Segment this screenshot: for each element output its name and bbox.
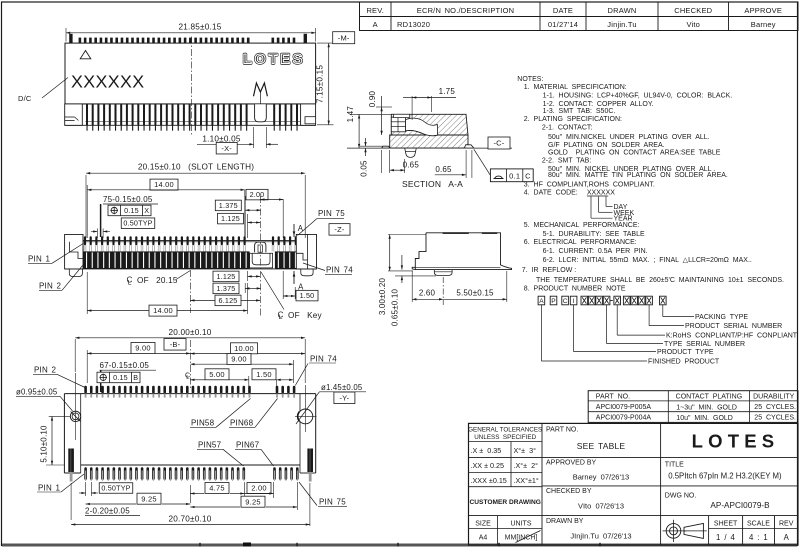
boxed dimension 5.00 xyxy=(190,369,249,390)
svg-text:FINISHED PRODUCT: FINISHED PRODUCT xyxy=(648,358,720,365)
date code DAY WEEK YEAR leaders xyxy=(591,197,634,223)
svg-text:0.50TYP: 0.50TYP xyxy=(123,219,152,228)
top view left end bracket xyxy=(65,104,83,125)
middle view band bottom edge xyxy=(65,268,317,270)
svg-text:LOTES: LOTES xyxy=(692,431,780,452)
diameter label ø0.95±0.05 xyxy=(16,387,73,411)
customer drawing label xyxy=(470,499,541,506)
date code XXXXXX underlined xyxy=(587,189,615,196)
svg-text:6-2. LLCR: INITIAL 55mΩ MA: 6-2. LLCR: INITIAL 55mΩ MAX. ; FINAL △LL… xyxy=(543,257,752,264)
top view SMT pad row xyxy=(69,34,307,43)
svg-text:6-1. CURRENT: 0.5A PER PIN: 6-1. CURRENT: 0.5A PER PIN. xyxy=(543,248,648,255)
svg-text:PIN 1: PIN 1 xyxy=(38,483,61,492)
svg-text:.X ± 0.35: .X ± 0.35 xyxy=(471,446,502,455)
dimension 0.65±0.10 (side view) xyxy=(390,255,436,326)
svg-text:A: A xyxy=(539,298,544,305)
svg-text:1-3. SMT TAB: S50C.: 1-3. SMT TAB: S50C. xyxy=(543,108,616,115)
title block grid xyxy=(469,423,799,545)
checked by cell xyxy=(546,488,624,510)
datum -X- xyxy=(216,142,237,154)
PIN58 label xyxy=(190,399,251,428)
dimension 1.75 (section) xyxy=(403,87,456,120)
svg-text:.XX°±1°: .XX°±1° xyxy=(514,476,539,485)
svg-text:ECR/N NO./DESCRIPTION: ECR/N NO./DESCRIPTION xyxy=(417,6,515,15)
svg-text:0.5PItch 67pIn M.2 H3.2(KEY M): 0.5PItch 67pIn M.2 H3.2(KEY M) xyxy=(668,472,782,481)
revision table row A xyxy=(373,20,776,29)
svg-text:5-1. DURABILITY: SEE TABLE: 5-1. DURABILITY: SEE TABLE xyxy=(543,231,645,238)
part table text xyxy=(596,394,796,422)
boxed dimension 1.375 bottom xyxy=(213,283,261,294)
embossed LOTES logo xyxy=(243,51,305,67)
svg-text:C: C xyxy=(525,171,531,180)
datum -C- xyxy=(488,137,510,149)
svg-text:2-2. SMT TAB:: 2-2. SMT TAB: xyxy=(542,158,591,165)
PIN57 label xyxy=(197,441,244,466)
LOTES logo title block xyxy=(692,431,780,452)
svg-text:APPROVED BY: APPROVED BY xyxy=(546,460,597,467)
svg-text:0.05: 0.05 xyxy=(359,160,368,177)
product number leader labels xyxy=(541,305,797,366)
svg-text:APPROVE: APPROVE xyxy=(744,6,782,15)
PIN 75 label (bottom view) xyxy=(299,482,347,507)
svg-text:0.15: 0.15 xyxy=(124,206,139,215)
PIN 1 label (bottom view) xyxy=(37,474,84,492)
svg-text:0.1: 0.1 xyxy=(509,171,520,180)
svg-text:PIN 2: PIN 2 xyxy=(39,282,62,291)
top view right end bracket xyxy=(301,104,316,125)
middle view key tab xyxy=(255,242,266,252)
projection symbol xyxy=(663,520,707,542)
svg-text:14.00: 14.00 xyxy=(153,306,173,315)
svg-text:25 CYCLES.: 25 CYCLES. xyxy=(754,415,796,422)
boxed dimension 9.00 right xyxy=(190,354,293,384)
D/C label xyxy=(18,78,68,104)
svg-text:PIN 74: PIN 74 xyxy=(310,354,337,363)
dimension 0.90 (section) xyxy=(368,90,392,135)
position tolerance bottom xyxy=(97,372,140,383)
boxed dimension 9.00 left xyxy=(87,340,190,390)
svg-text:CONTACT PLATING: CONTACT PLATING xyxy=(676,394,743,401)
svg-text:1. MATERIAL SPECIFICATION:: 1. MATERIAL SPECIFICATION: xyxy=(524,84,627,91)
svg-text:PIN 2: PIN 2 xyxy=(34,366,57,375)
svg-text:9.00: 9.00 xyxy=(135,344,150,353)
middle view contact tips row xyxy=(84,236,297,251)
svg-text:0.50TYP: 0.50TYP xyxy=(101,483,130,492)
dimension 7.15±0.15 xyxy=(316,43,334,125)
position tolerance top xyxy=(108,205,151,216)
svg-text:Barney 07/26'13: Barney 07/26'13 xyxy=(573,473,629,482)
dimension 20.00±0.10 xyxy=(75,328,305,383)
svg-text:9.00: 9.00 xyxy=(231,355,246,364)
svg-text:1.10±0.05: 1.10±0.05 xyxy=(202,134,240,143)
boxed dimension 1.125 bottom xyxy=(213,271,260,282)
top view band bottom edge xyxy=(65,124,316,126)
datum -M- xyxy=(333,32,355,44)
PIN 74 label (bottom view) xyxy=(295,354,337,385)
svg-text:GOLD PLATING ON CONTACT: GOLD PLATING ON CONTACT AREA:SEE TABLE xyxy=(548,150,721,157)
svg-text:TYPE SERIAL NUMBER: TYPE SERIAL NUMBER xyxy=(664,341,745,348)
svg-text:7. IR REFLOW :: 7. IR REFLOW : xyxy=(522,267,577,274)
dimension 5.10±0.10 xyxy=(40,416,65,465)
dimension 2.60 (side view) xyxy=(412,271,443,305)
datum -B- xyxy=(164,339,186,351)
bottom view lower pin row xyxy=(84,467,298,481)
middle view left end bracket xyxy=(65,234,83,276)
svg-text:PIN 1: PIN 1 xyxy=(28,255,51,264)
svg-text:1-2. CONTACT: COPPER ALLOY.: 1-2. CONTACT: COPPER ALLOY. xyxy=(543,101,654,108)
top view vertical centerline xyxy=(191,37,193,137)
boxed dimension 2.00 top xyxy=(246,189,283,238)
svg-text:K:RoHS CONPLIANT/P:HF CONPLI: K:RoHS CONPLIANT/P:HF CONPLIANT xyxy=(666,333,798,340)
dimension 0.05 (section) xyxy=(359,138,383,177)
datum -Z- xyxy=(329,224,350,236)
sheet scale rev cells xyxy=(714,521,794,542)
dimension 67-0.15±0.05 xyxy=(100,361,157,392)
side view solder tab xyxy=(434,270,452,276)
svg-text:C: C xyxy=(563,298,568,305)
svg-text:A: A xyxy=(784,533,790,542)
general tolerances text xyxy=(468,427,542,485)
revision table header text xyxy=(366,6,782,15)
svg-text:1.75: 1.75 xyxy=(439,87,456,96)
svg-text:20.00±0.10: 20.00±0.10 xyxy=(169,328,212,337)
dimension 20.70±0.10 xyxy=(71,483,310,526)
size units cells xyxy=(475,521,540,543)
boxed dimension 4.75 xyxy=(190,482,244,503)
section A-A hatched body xyxy=(390,114,468,148)
svg-text:OF 20.15: OF 20.15 xyxy=(137,276,178,285)
svg-text:GENERAL TOLERANCES: GENERAL TOLERANCES xyxy=(468,427,542,434)
svg-text:4 : 1: 4 : 1 xyxy=(749,533,768,542)
svg-text:G/F PLATING ON SOLDER AREA: G/F PLATING ON SOLDER AREA. xyxy=(548,142,665,149)
centerline symbol at datum B xyxy=(185,373,190,382)
notes text lines 5-8 xyxy=(522,222,784,292)
polarity triangle mark xyxy=(80,51,91,59)
svg-text:SECTION A-A: SECTION A-A xyxy=(402,179,463,189)
PIN 1 label (middle view) xyxy=(28,243,84,264)
middle view right end bracket xyxy=(296,234,316,275)
svg-text:PIN57: PIN57 xyxy=(198,441,222,450)
section A-A feet xyxy=(382,145,474,148)
svg-text:21.85±0.15: 21.85±0.15 xyxy=(179,22,222,31)
middle view slot centerline xyxy=(189,270,191,313)
section arrow A top xyxy=(293,224,304,237)
svg-text:0.90: 0.90 xyxy=(368,90,377,107)
dwg no cell xyxy=(665,493,770,510)
section A-A PCB baseline xyxy=(347,147,512,149)
svg-text:20.15±0.10 (SLOT LENGTH): 20.15±0.10 (SLOT LENGTH) xyxy=(138,163,254,172)
svg-text:-B-: -B- xyxy=(170,340,181,349)
svg-text:APCI0079-P005A: APCI0079-P005A xyxy=(596,404,652,411)
svg-text:DURABILITY: DURABILITY xyxy=(753,394,795,401)
dimension 20.15 slot length xyxy=(86,163,305,239)
svg-text:JInjIn.Tu 07/26'13: JInjIn.Tu 07/26'13 xyxy=(570,532,631,541)
svg-text:UNITS: UNITS xyxy=(511,521,532,528)
svg-text:REV.: REV. xyxy=(366,6,384,15)
svg-text:20.70±0.10: 20.70±0.10 xyxy=(169,515,212,524)
svg-text:CHECKED: CHECKED xyxy=(674,6,712,15)
svg-text:ø0.95±0.05: ø0.95±0.05 xyxy=(16,387,58,396)
svg-text:DRAWN: DRAWN xyxy=(607,6,636,15)
svg-text:PACKING TYPE: PACKING TYPE xyxy=(695,314,748,321)
svg-text:1.125: 1.125 xyxy=(217,272,236,281)
dimension 75-0.15±0.05 xyxy=(101,195,158,237)
boxed dimension 9.25 left xyxy=(86,493,191,505)
svg-text:B: B xyxy=(133,373,138,382)
svg-text:DRAWN BY: DRAWN BY xyxy=(546,518,584,525)
svg-text:0.65±0.10: 0.65±0.10 xyxy=(390,288,399,326)
svg-text:2.00: 2.00 xyxy=(250,190,265,199)
svg-text:2.60: 2.60 xyxy=(419,289,436,298)
svg-text:XXXXXX: XXXXXX xyxy=(71,71,145,91)
centerline of Key label xyxy=(261,272,323,321)
SECTION A-A label xyxy=(402,179,463,189)
svg-text:1.50: 1.50 xyxy=(256,370,271,379)
dimension 0.65 left (section) xyxy=(382,150,420,173)
svg-text:THE TEMPERATURE SHALL BE 2: THE TEMPERATURE SHALL BE 260±5'C MAINTAI… xyxy=(536,277,784,284)
svg-text:L: L xyxy=(279,314,283,321)
svg-text:2-0.20±0.05: 2-0.20±0.05 xyxy=(85,506,130,515)
svg-text:DWG NO.: DWG NO. xyxy=(665,493,697,500)
svg-text:LOTES: LOTES xyxy=(243,51,305,67)
PIN 2 label (bottom view) xyxy=(33,366,85,388)
svg-text:P: P xyxy=(551,298,556,305)
svg-text:10u" MIN. GOLD: 10u" MIN. GOLD xyxy=(676,415,733,422)
svg-text:CUSTOMER DRAWING: CUSTOMER DRAWING xyxy=(470,499,541,506)
svg-text:1.50: 1.50 xyxy=(300,291,315,300)
side view outline xyxy=(412,232,511,269)
bottom view upper pin row xyxy=(84,386,295,398)
svg-text:-X-: -X- xyxy=(221,144,232,153)
svg-text:PRODUCT TYPE: PRODUCT TYPE xyxy=(657,349,714,356)
svg-text:1.375: 1.375 xyxy=(217,284,236,293)
svg-text:0.15: 0.15 xyxy=(113,373,128,382)
svg-text:AP-APCI0079-B: AP-APCI0079-B xyxy=(710,501,770,510)
svg-text:3.00±0.20: 3.00±0.20 xyxy=(378,277,387,315)
svg-text:1~3u" MIN. GOLD: 1~3u" MIN. GOLD xyxy=(676,405,737,412)
key M marking xyxy=(254,83,268,104)
svg-text:80u" MIN. MATTE TIN PLATIN: 80u" MIN. MATTE TIN PLATING ON SOLDER AR… xyxy=(548,172,728,179)
svg-text:PIN 75: PIN 75 xyxy=(318,209,345,218)
svg-text:MM[INCH]: MM[INCH] xyxy=(505,535,538,542)
left hold-down lead xyxy=(68,449,74,482)
boxed dimension 6.125 xyxy=(190,295,260,306)
PIN67 label xyxy=(235,441,274,466)
PIN68 label xyxy=(229,399,278,428)
boxed dimension 2.00 bottom xyxy=(245,482,274,498)
svg-text:7.15±0.15: 7.15±0.15 xyxy=(316,65,325,103)
section A-A left step detail xyxy=(391,114,409,132)
bottom zone strip xyxy=(2,543,797,547)
part table grid xyxy=(588,391,798,423)
svg-text:-M-: -M- xyxy=(338,33,350,42)
boxed dimension 9.25 right xyxy=(190,482,297,510)
svg-text:2.00: 2.00 xyxy=(251,484,266,493)
svg-text:SCALE: SCALE xyxy=(747,521,770,528)
centerline of 20.15 label xyxy=(127,271,191,287)
boxed dimension 14.00 top xyxy=(87,179,245,238)
svg-text:3. HF COMPLIANT,ROHS COMPLI: 3. HF COMPLIANT,ROHS COMPLIANT. xyxy=(524,181,655,188)
svg-text:4. DATE CODE:: 4. DATE CODE: xyxy=(524,189,578,196)
svg-text:RD13020: RD13020 xyxy=(397,20,430,29)
middle view key slot xyxy=(250,253,273,268)
svg-text:A: A xyxy=(373,20,378,29)
svg-text:5.50±0.15: 5.50±0.15 xyxy=(456,289,494,298)
svg-text:ø1.45±0.05: ø1.45±0.05 xyxy=(321,383,363,392)
drawn by cell xyxy=(546,518,632,541)
svg-text:-Z-: -Z- xyxy=(334,225,344,234)
product number boxes xyxy=(538,296,666,305)
svg-text:PIN 75: PIN 75 xyxy=(319,498,346,507)
top view key tab xyxy=(255,104,267,122)
svg-text:TITLE: TITLE xyxy=(665,462,684,469)
svg-text:1 / 4: 1 / 4 xyxy=(716,533,735,542)
svg-text:5. MECHANICAL PERFORMANCE:: 5. MECHANICAL PERFORMANCE: xyxy=(524,222,640,229)
svg-text:A4: A4 xyxy=(479,535,488,542)
date code XXXXXX stamp xyxy=(71,71,145,91)
svg-text:6.125: 6.125 xyxy=(219,296,238,305)
PIN 75 label (middle view) xyxy=(298,209,346,235)
revision table grid xyxy=(360,2,799,31)
top view contact band pins xyxy=(72,104,316,131)
svg-text:2-1. CONTACT:: 2-1. CONTACT: xyxy=(542,124,592,131)
mounting hole left (ø0.95) xyxy=(49,373,81,440)
svg-text:REV: REV xyxy=(779,521,794,528)
PIN 2 label (middle view) xyxy=(39,262,86,291)
flatness callout xyxy=(474,149,533,181)
svg-text:-Y-: -Y- xyxy=(339,393,349,402)
svg-text:Vito: Vito xyxy=(686,20,700,29)
svg-text:6. ELECTRICAL PERFORMANCE:: 6. ELECTRICAL PERFORMANCE: xyxy=(524,239,637,246)
svg-text:PART NO.: PART NO. xyxy=(596,394,630,401)
svg-text:L: L xyxy=(128,279,132,286)
section A-A solder bump xyxy=(405,148,417,157)
svg-text:14.00: 14.00 xyxy=(154,180,174,189)
svg-text:PIN 74: PIN 74 xyxy=(326,266,353,275)
boxed dimension 1.375 top xyxy=(215,196,261,238)
svg-text:SEE TABLE: SEE TABLE xyxy=(577,441,626,451)
boxed dimension 14.00 bottom xyxy=(87,272,247,316)
svg-text:.X°± 2°: .X°± 2° xyxy=(514,461,539,470)
dimension 3.00±0.20 (side view) xyxy=(378,235,426,316)
right hold-down lead xyxy=(307,449,313,482)
svg-text:PART NO.: PART NO. xyxy=(546,427,578,434)
svg-text:Barney: Barney xyxy=(751,20,776,29)
svg-text:1.375: 1.375 xyxy=(219,201,238,210)
boxed dimension 1.50 xyxy=(283,271,318,301)
dimension 0.65 right (section) xyxy=(435,150,472,178)
boxed dimension 0.50TYP bottom xyxy=(79,482,133,496)
top view body outline xyxy=(65,43,316,104)
svg-text:PIN67: PIN67 xyxy=(236,441,260,450)
svg-text:9.25: 9.25 xyxy=(141,494,156,503)
svg-text:2. PLATING SPECIFICATION:: 2. PLATING SPECIFICATION: xyxy=(524,116,622,123)
svg-text:0.65: 0.65 xyxy=(403,161,420,170)
section arrow A bottom xyxy=(293,271,304,292)
dimension 1.47 (section) xyxy=(346,106,391,148)
svg-text:UNLESS SPECIFIED: UNLESS SPECIFIED xyxy=(474,434,536,441)
dimension 5.50±0.15 (side view) xyxy=(443,271,507,302)
bottom view body outline xyxy=(64,394,315,473)
svg-text:CHECKED BY: CHECKED BY xyxy=(546,488,592,495)
boxed dimension 10.00 xyxy=(190,343,305,355)
svg-text:SHEET: SHEET xyxy=(714,521,738,528)
dimension 2-0.20±0.05 xyxy=(71,483,140,520)
notes text lines 1-4 xyxy=(517,76,732,196)
svg-text:PIN68: PIN68 xyxy=(230,419,254,428)
svg-text:X°± 3°: X°± 3° xyxy=(514,446,537,455)
svg-text:1.125: 1.125 xyxy=(221,214,240,223)
svg-text:4.75: 4.75 xyxy=(209,484,224,493)
dimension 21.85±0.15 xyxy=(66,22,316,41)
svg-text:67-0.15±0.05: 67-0.15±0.05 xyxy=(100,361,150,370)
svg-text:PIN58: PIN58 xyxy=(191,419,215,428)
dimension 1.10±0.05 xyxy=(197,127,278,148)
title cell xyxy=(665,462,782,481)
svg-text:50u" MIN.NICKEL UNDER PLATI: 50u" MIN.NICKEL UNDER PLATING OVER ALL. xyxy=(548,134,710,141)
svg-text:5.10±0.10: 5.10±0.10 xyxy=(40,425,49,463)
svg-text:01/27'14: 01/27'14 xyxy=(548,20,578,29)
svg-text:5.00: 5.00 xyxy=(209,370,224,379)
svg-text:0.65: 0.65 xyxy=(435,165,452,174)
svg-text:NOTES:: NOTES: xyxy=(517,76,543,83)
svg-text:DATE: DATE xyxy=(553,6,573,15)
boxed dimension 0.50TYP top xyxy=(91,218,155,238)
svg-text:25 CYCLES.: 25 CYCLES. xyxy=(754,404,796,411)
diameter label ø1.45±0.05 xyxy=(319,383,366,392)
PIN 74 label (middle view) xyxy=(303,263,353,275)
svg-text:.XXX ±0.15: .XXX ±0.15 xyxy=(471,476,507,485)
boxed dimension 1.125 top xyxy=(218,213,261,238)
section A-A contact cavity xyxy=(406,118,438,136)
part no cell xyxy=(546,427,625,451)
svg-text:XXXXXX: XXXXXX xyxy=(587,189,615,196)
svg-text:APCI0079-P004A: APCI0079-P004A xyxy=(596,415,652,422)
svg-text:PRODUCT SERIAL NUMBER: PRODUCT SERIAL NUMBER xyxy=(685,323,782,330)
svg-text:10.00: 10.00 xyxy=(234,344,254,353)
svg-text:X: X xyxy=(144,206,149,215)
svg-text:D/C: D/C xyxy=(18,94,32,103)
svg-text:8. PRODUCT NUMBER NOTE: 8. PRODUCT NUMBER NOTE xyxy=(524,285,626,292)
svg-text:75-0.15±0.05: 75-0.15±0.05 xyxy=(103,195,153,204)
svg-text:I: I xyxy=(573,298,575,305)
middle view top edge xyxy=(65,240,317,241)
svg-text:1-1. HOUSING: LCP+40%GF, UL: 1-1. HOUSING: LCP+40%GF, UL94V-0, COLOR:… xyxy=(543,93,733,100)
svg-text:-C-: -C- xyxy=(493,139,504,148)
middle view black contact band xyxy=(83,251,296,269)
svg-text:.XX ± 0.25: .XX ± 0.25 xyxy=(471,461,505,470)
svg-text:9.25: 9.25 xyxy=(245,497,260,506)
svg-text:VIto 07/26'13: VIto 07/26'13 xyxy=(578,502,624,511)
svg-text:SIZE: SIZE xyxy=(475,521,491,528)
svg-text:Jinjin.Tu: Jinjin.Tu xyxy=(607,20,636,29)
svg-text:OF Key: OF Key xyxy=(288,311,323,320)
middle view key centerline xyxy=(259,196,261,316)
mounting hole right (ø1.45) xyxy=(295,385,319,432)
boxed dimension 1.50 bottom-view xyxy=(252,369,293,390)
datum -Y- xyxy=(334,392,355,404)
svg-text:A: A xyxy=(298,224,304,233)
approved by cell xyxy=(546,460,629,482)
